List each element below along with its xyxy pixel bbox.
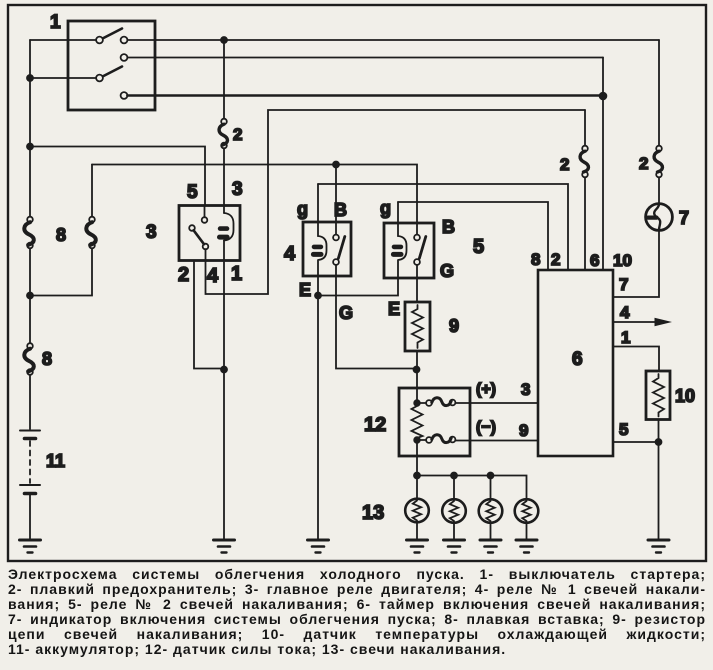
- current sensor S12 box: [399, 388, 470, 456]
- wire link 8b up to line y164: [91, 165, 93, 217]
- node rail 3: [488, 473, 494, 479]
- relay R4 box: [303, 222, 351, 276]
- wire relay R4 G to resistor node: [336, 265, 414, 369]
- node row3 join: [600, 93, 607, 100]
- fusible link 8c: [27, 343, 33, 349]
- switch S1 arm 1: [104, 29, 123, 39]
- resistor R9 zigzag: [412, 305, 423, 348]
- svg-text:g: g: [297, 199, 308, 219]
- node pin2 join: [221, 367, 227, 373]
- wire relay R3 pin1 to ground: [223, 261, 225, 541]
- ground E node: [308, 539, 329, 542]
- timer U6 box: [538, 270, 613, 456]
- fuse F2c: [656, 146, 662, 152]
- wire battery bus upper: [29, 40, 31, 217]
- resistor R9 box: [405, 302, 430, 351]
- battery B11 cell2 short plate: [25, 492, 36, 496]
- ground right bus: [648, 539, 669, 542]
- svg-text:8: 8: [56, 225, 66, 245]
- relay R4 switch top contact: [333, 235, 339, 241]
- node rail 2: [451, 473, 457, 479]
- wire row1 to right: [127, 39, 659, 41]
- switch S1 contact row 2 left: [96, 75, 103, 82]
- wire fuse2a to relay3 coil: [223, 148, 225, 213]
- relay R3 pin5 wire inside: [204, 206, 206, 218]
- relay R4 coil: [318, 184, 327, 276]
- wire row2 to timer pin10: [602, 58, 604, 271]
- svg-text:3: 3: [521, 380, 530, 399]
- node bus to relay3 pin5: [27, 144, 33, 150]
- ground plug P1: [407, 539, 428, 542]
- wire plug drop 3: [490, 476, 492, 500]
- glow plug P4: [515, 499, 539, 523]
- switch S1 arm 2: [104, 67, 123, 77]
- wire row2 to right: [127, 57, 603, 59]
- wire relay R3 pin2 to ground bus: [194, 261, 222, 369]
- glow plug rail: [417, 476, 527, 499]
- relay R3 coil: [224, 213, 234, 241]
- svg-text:6: 6: [590, 251, 599, 270]
- svg-text:(+): (+): [476, 381, 496, 398]
- wire fuse F2c to indicator: [658, 177, 660, 203]
- wire plug drop 2: [453, 476, 455, 500]
- svg-text:7: 7: [619, 275, 628, 294]
- ground plug P2: [444, 539, 465, 542]
- node E: [315, 293, 321, 299]
- sensor S12 resistor zigzag: [412, 403, 423, 440]
- node rail 1: [414, 473, 420, 479]
- svg-text:2: 2: [551, 250, 560, 269]
- wire switch left feed row1: [30, 39, 96, 41]
- svg-text:B: B: [442, 217, 455, 237]
- wire sensor bottom to plug rail: [416, 440, 418, 476]
- wire relay R3 pin4 to timer pin6 riser: [206, 110, 586, 294]
- svg-text:11: 11: [46, 451, 65, 471]
- svg-text:1: 1: [50, 12, 61, 33]
- wire relay R4 E to ground: [317, 276, 319, 540]
- sensor S12 shunt plus: [420, 402, 426, 404]
- svg-text:10: 10: [675, 386, 695, 406]
- svg-text:3: 3: [146, 222, 157, 243]
- svg-text:5: 5: [187, 182, 198, 203]
- svg-text:5: 5: [473, 236, 484, 258]
- wire branch to link 8b: [30, 248, 92, 295]
- wire timer pin4 output arrow: [613, 321, 665, 323]
- svg-text:9: 9: [449, 316, 459, 336]
- indicator lamp H7: [646, 204, 673, 231]
- svg-text:G: G: [440, 261, 454, 281]
- svg-text:4: 4: [284, 243, 296, 265]
- svg-text:7: 7: [679, 208, 689, 228]
- glow plug P4 ground lead: [526, 523, 528, 540]
- svg-text:E: E: [299, 280, 311, 300]
- switch S1 right contact 1: [121, 37, 128, 44]
- relay R4 switch arm: [338, 237, 345, 259]
- battery B11 cell2 long plate: [20, 484, 40, 486]
- wire relay R5 G to resistor R9: [416, 265, 418, 302]
- relay R5 coil wire to timer pin8: [398, 202, 548, 270]
- svg-text:5: 5: [619, 420, 628, 439]
- svg-text:4: 4: [620, 303, 630, 322]
- sensor S12 node plus: [414, 400, 420, 406]
- svg-text:2: 2: [560, 155, 569, 174]
- glow plug P2 ground lead: [453, 523, 455, 540]
- ground plug P4: [516, 539, 537, 542]
- switch S1 right contact 2: [121, 54, 128, 61]
- battery B11 cell1 short plate: [25, 437, 36, 441]
- wire timer pin1 to resistor R10: [613, 347, 659, 372]
- relay R3 switch arm: [194, 230, 204, 244]
- glow plug P1 ground lead: [416, 522, 418, 540]
- glow plug P3 ground lead: [490, 523, 492, 540]
- svg-text:1: 1: [231, 263, 242, 285]
- wire bus mid: [29, 248, 31, 343]
- wire sensor minus to timer pin9: [455, 440, 538, 442]
- relay R3 box: [179, 206, 240, 261]
- svg-text:9: 9: [519, 421, 528, 440]
- svg-text:8: 8: [42, 349, 52, 369]
- svg-text:G: G: [339, 303, 353, 323]
- relay R5 switch bottom contact: [414, 259, 420, 265]
- wire fuse F2b to timer pin6: [584, 177, 586, 270]
- ground plug P3: [480, 539, 501, 542]
- svg-text:3: 3: [232, 179, 243, 200]
- wire link 8c to battery: [29, 375, 31, 429]
- switch S1 box: [68, 21, 155, 110]
- svg-text:2: 2: [233, 125, 242, 144]
- ground relay R3: [214, 539, 235, 542]
- fusible link 8a: [27, 217, 33, 223]
- svg-text:1: 1: [621, 328, 630, 347]
- resistor R10 box: [646, 371, 670, 420]
- fuse F2b: [582, 146, 588, 152]
- wire switch left feed row2: [33, 77, 96, 79]
- node battery bus top: [27, 75, 33, 81]
- wire pin5 bus to ground: [658, 442, 660, 540]
- wire relay R3 pin4 inside: [205, 249, 207, 260]
- relay R4 coil wire to timer pin2: [318, 184, 568, 270]
- wire timer pin5 to ground bus: [613, 441, 659, 443]
- wire resistor R9 to sensor: [416, 351, 418, 388]
- node row1 fuse tap: [221, 37, 227, 43]
- sensor S12 shunt minus: [420, 439, 426, 441]
- fuse F2a: [221, 119, 227, 125]
- relay R4 switch bottom contact: [333, 259, 339, 265]
- wire bus to relay3 pin5: [30, 147, 205, 206]
- fusible link 8b: [89, 217, 95, 223]
- relay R5 switch arm: [419, 237, 426, 259]
- svg-text:4: 4: [207, 265, 219, 287]
- node relay4 B tap: [333, 162, 339, 168]
- fuse F2c riser: [658, 40, 660, 146]
- node pin5 junction: [656, 439, 662, 445]
- glow plug P1: [405, 499, 429, 523]
- glow plug P2: [442, 499, 466, 523]
- sensor S12 node minus: [414, 437, 420, 443]
- glow plug P3: [479, 499, 503, 523]
- svg-text:6: 6: [572, 349, 583, 370]
- node resistor R9 bottom: [414, 367, 420, 373]
- svg-text:2: 2: [178, 264, 189, 286]
- battery B11 cell1 long plate: [20, 430, 40, 432]
- wire plug drop 1: [416, 476, 418, 499]
- wire relay4 B drop: [335, 165, 337, 235]
- svg-text:E: E: [388, 299, 400, 319]
- svg-text:12: 12: [364, 414, 386, 436]
- fuse F2b riser: [584, 110, 586, 146]
- svg-text:g: g: [380, 198, 391, 218]
- ground battery: [20, 539, 41, 542]
- relay R5 coil: [398, 202, 407, 278]
- relay R5 box: [384, 223, 434, 278]
- svg-text:2: 2: [639, 154, 648, 173]
- wire sensor plus to timer pin3: [455, 402, 538, 404]
- wire row3 to right (thick): [127, 94, 601, 97]
- wire resistor R10 to pin5 bus: [658, 420, 660, 443]
- wire timer pin7 to indicator: [613, 231, 659, 297]
- resistor R10 zigzag: [653, 374, 664, 417]
- switch S1 right contact 3: [121, 92, 128, 99]
- wire battery to ground: [29, 495, 31, 540]
- relay R3 switch top contact: [202, 217, 208, 223]
- sensor S12 inner wire top: [416, 388, 418, 403]
- relay R3 switch pivot contact: [189, 225, 195, 231]
- svg-text:10: 10: [613, 251, 632, 270]
- wire fuse2a drop: [223, 40, 225, 119]
- battery B11 dashed middle: [29, 441, 31, 483]
- switch S1 contact row 1 left: [96, 37, 103, 44]
- wire E to relay R5 coil: [318, 278, 398, 296]
- relay R5 switch top contact: [414, 235, 420, 241]
- svg-text:(−): (−): [476, 419, 496, 436]
- wire line y164 B-bus: [92, 165, 417, 235]
- svg-text:B: B: [334, 200, 347, 220]
- svg-text:8: 8: [531, 250, 540, 269]
- node bus branch: [27, 293, 33, 299]
- relay R3 switch bottom contact: [203, 244, 209, 250]
- svg-text:13: 13: [362, 502, 384, 524]
